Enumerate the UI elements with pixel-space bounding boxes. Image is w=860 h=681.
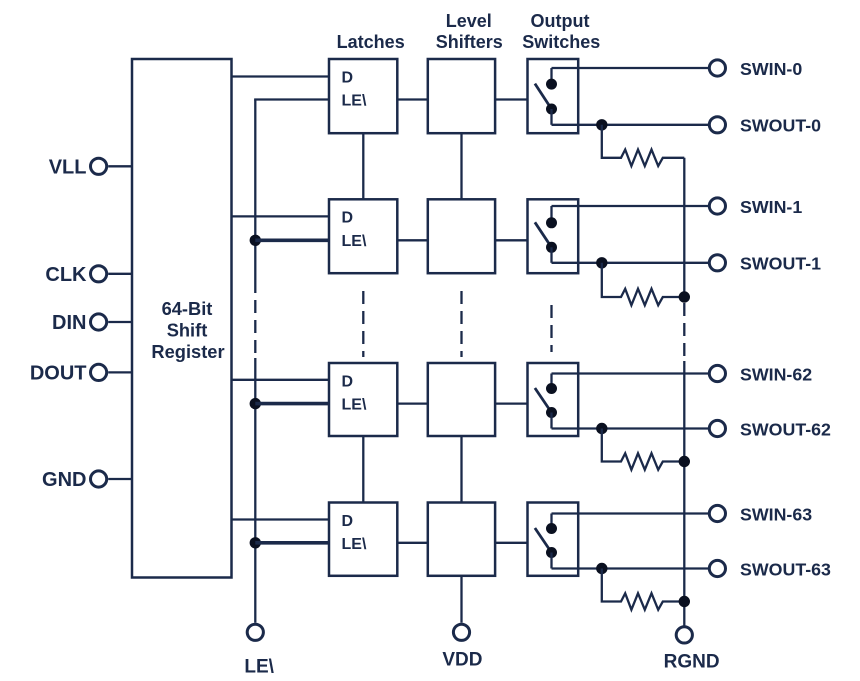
- pin DIN terminal: [91, 314, 133, 330]
- level shifter row 1 box: [428, 199, 495, 273]
- terminal VDD: [453, 624, 469, 640]
- wire: SWOUT-63 line: [552, 567, 709, 569]
- terminal LE\: [247, 624, 263, 640]
- junction: LE bus tap row 1: [250, 235, 261, 246]
- svg-text:SWOUT-1: SWOUT-1: [740, 254, 821, 274]
- wire: D input row 1: [232, 215, 330, 217]
- wire: SWIN-0 line: [552, 67, 709, 69]
- wire: level shifter row 62 output to switch: [495, 402, 527, 404]
- svg-text:LE\: LE\: [342, 397, 367, 414]
- junction: LE bus tap row 63: [250, 537, 261, 548]
- wire: SWIN-1 line: [552, 205, 709, 207]
- terminal SWOUT-1: [709, 255, 725, 271]
- wire: latch row 0 output to level shifter: [397, 98, 428, 100]
- wire: SWIN-62 line: [552, 372, 709, 374]
- wire: latch chain vertical solid row0-row1: [362, 133, 364, 199]
- switch row 63: output contact dot: [546, 547, 557, 558]
- level shifter row 0 box: [428, 59, 495, 133]
- switch row 62: lever (open): [535, 388, 552, 413]
- junction: RGND bus tap row 63: [679, 596, 690, 607]
- column header "Level Shifters": [436, 11, 503, 52]
- terminal SWIN-0: [709, 60, 725, 76]
- wire: latch row 63 output to level shifter: [397, 542, 428, 544]
- svg-text:LE\: LE\: [244, 656, 274, 677]
- svg-text:LE\: LE\: [342, 93, 367, 110]
- svg-text:SWIN-0: SWIN-0: [740, 59, 802, 79]
- latch row 62 pin labels D, LE\: [342, 373, 367, 413]
- output switch row 62 box: [528, 363, 579, 436]
- terminal SWOUT-62: [709, 420, 725, 436]
- wire: SWOUT-0 line: [552, 124, 709, 126]
- pin GND terminal: [91, 471, 133, 487]
- switch row 1: input contact dot: [546, 217, 557, 228]
- switch row 0: lever (open): [535, 84, 552, 109]
- wire: LE input row 1 (thick): [255, 239, 329, 243]
- switch row 1: lever (open): [535, 222, 552, 247]
- pin DOUT terminal: [91, 364, 133, 380]
- shift register label: [151, 298, 224, 362]
- terminal RGND: [676, 627, 692, 643]
- svg-text:SWOUT-0: SWOUT-0: [740, 116, 821, 136]
- pin VLL terminal: [91, 158, 133, 174]
- resistor R63 (SWOUT-63 to RGND): [602, 569, 685, 610]
- latch row 1 pin labels D, LE\: [342, 210, 367, 250]
- junction: RGND bus tap row 1: [679, 291, 690, 302]
- wire: latch chain vertical dashed (omitted rows): [362, 291, 364, 357]
- column header "Output Switches": [522, 11, 600, 52]
- junction: SWOUT-62 resistor tap: [596, 423, 607, 434]
- level shifter row 62 box: [428, 363, 495, 436]
- svg-text:Switches: Switches: [522, 32, 600, 52]
- junction: SWOUT-0 resistor tap: [596, 119, 607, 130]
- wire: level shifter row 63 output to switch: [495, 542, 527, 544]
- resistor R62 (SWOUT-62 to RGND): [602, 429, 685, 470]
- switch row 63: SWIN stub: [550, 514, 552, 525]
- latch row 0 box: [329, 59, 397, 133]
- switch row 0: output contact dot: [546, 104, 557, 115]
- switch row 63: input contact dot: [546, 523, 557, 534]
- svg-text:SWIN-1: SWIN-1: [740, 197, 802, 217]
- wire: latch row 62 output to level shifter: [397, 402, 428, 404]
- switch row 1: SWIN stub: [550, 206, 552, 218]
- pin CLK terminal: [91, 266, 133, 282]
- svg-text:Shift: Shift: [167, 320, 208, 341]
- output switch row 63 box: [528, 503, 579, 576]
- svg-text:D: D: [342, 513, 354, 530]
- level shifter row 63 box: [428, 503, 495, 576]
- resistor R1 (SWOUT-1 to RGND): [602, 263, 685, 305]
- resistor R0 (SWOUT-0 to RGND): [602, 125, 685, 166]
- svg-text:VDD: VDD: [442, 649, 482, 670]
- switch row 62: output contact dot: [546, 407, 557, 418]
- svg-text:Register: Register: [151, 341, 224, 362]
- wire: switch chain vertical dashed (omitted rows): [550, 305, 552, 352]
- wire: latch row 1 output to level shifter: [397, 239, 428, 241]
- switch row 63: output drop wire: [550, 553, 552, 569]
- switch row 0: output drop wire: [550, 109, 552, 125]
- latch row 63 pin labels D, LE\: [342, 513, 367, 553]
- junction: SWOUT-63 resistor tap: [596, 563, 607, 574]
- wire: SWIN-63 line: [552, 512, 709, 514]
- switch row 62: output drop wire: [550, 413, 552, 429]
- svg-text:VLL: VLL: [49, 156, 87, 178]
- latch row 63 box: [329, 503, 397, 576]
- wire: D input row 63: [232, 518, 330, 520]
- svg-text:Shifters: Shifters: [436, 32, 503, 52]
- junction: SWOUT-1 resistor tap: [596, 257, 607, 268]
- terminal SWOUT-0: [709, 117, 725, 133]
- svg-text:LE\: LE\: [342, 536, 367, 553]
- wire: RGND bus vertical (x=684): [683, 158, 685, 626]
- 64-bit shift register U1 box: [132, 59, 232, 578]
- wire: LE input row 63 (thick): [255, 541, 329, 545]
- terminal SWIN-1: [709, 198, 725, 214]
- wire: LE input row 62 (thick): [255, 402, 329, 406]
- svg-text:64-Bit: 64-Bit: [162, 298, 213, 319]
- switch row 0: SWIN stub: [550, 68, 552, 80]
- wire: D input row 62: [232, 379, 330, 381]
- wire: latch chain vertical solid row2-row3: [362, 436, 364, 503]
- svg-text:CLK: CLK: [45, 264, 87, 286]
- svg-text:D: D: [342, 373, 354, 390]
- output switch row 1 box: [528, 199, 579, 273]
- svg-text:Output: Output: [531, 11, 590, 31]
- wire: SWOUT-1 line: [552, 262, 709, 264]
- terminal SWIN-62: [709, 365, 725, 381]
- latch row 0 pin labels D, LE\: [342, 69, 367, 109]
- svg-text:Latches: Latches: [337, 32, 405, 52]
- output switch row 0 box: [528, 59, 579, 133]
- wire: level-shifter chain vertical dashed (omitted rows): [460, 291, 462, 357]
- wire: LE\ bus vertical (x=255): [254, 100, 256, 623]
- junction: RGND bus tap row 62: [679, 456, 690, 467]
- junction: LE bus tap row 62: [250, 398, 261, 409]
- switch row 63: lever (open): [535, 528, 552, 553]
- switch row 62: input contact dot: [546, 383, 557, 394]
- wire: VDD stub: [460, 576, 462, 623]
- svg-text:DOUT: DOUT: [30, 362, 87, 384]
- wire: SWOUT-62 line: [552, 427, 709, 429]
- svg-text:SWOUT-62: SWOUT-62: [740, 419, 831, 439]
- terminal SWIN-63: [709, 505, 725, 521]
- svg-text:SWIN-63: SWIN-63: [740, 504, 812, 524]
- svg-text:SWOUT-63: SWOUT-63: [740, 559, 831, 579]
- svg-text:GND: GND: [42, 469, 86, 491]
- terminal SWOUT-63: [709, 560, 725, 576]
- wire: level shifter row 0 output to switch: [495, 98, 527, 100]
- svg-text:DIN: DIN: [52, 312, 86, 334]
- wire: D input row 0: [232, 75, 330, 77]
- latch row 62 box: [329, 363, 397, 436]
- svg-text:RGND: RGND: [664, 652, 720, 673]
- svg-text:SWIN-62: SWIN-62: [740, 364, 812, 384]
- wire: LE input row 0 (bus corner): [254, 98, 329, 100]
- svg-text:D: D: [342, 210, 354, 227]
- svg-text:Level: Level: [446, 11, 492, 31]
- svg-text:D: D: [342, 69, 354, 86]
- wire: level-shifter chain vertical solid row0-row1: [460, 133, 462, 199]
- latch row 1 box: [329, 199, 397, 273]
- switch row 1: output drop wire: [550, 247, 552, 262]
- svg-text:LE\: LE\: [342, 233, 367, 250]
- switch row 1: output contact dot: [546, 242, 557, 253]
- wire: level-shifter chain vertical solid row2-row3: [460, 436, 462, 503]
- switch row 0: input contact dot: [546, 79, 557, 90]
- wire: level shifter row 1 output to switch: [495, 239, 527, 241]
- switch row 62: SWIN stub: [550, 374, 552, 385]
